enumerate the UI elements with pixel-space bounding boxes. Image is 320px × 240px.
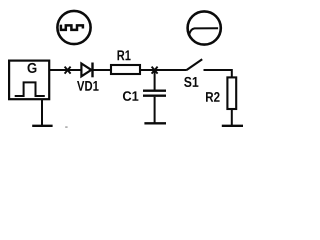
wire: G output to diode	[50, 69, 82, 71]
label R2	[206, 92, 220, 102]
wire: switch fixed contact to R2, with corner	[204, 70, 232, 78]
probe point x (input)	[65, 67, 71, 74]
resistor R2	[227, 77, 236, 109]
diode VD1	[81, 64, 91, 77]
wire stub below G box	[41, 99, 43, 126]
indicator circle (input waveform)	[57, 11, 90, 44]
label R1	[118, 50, 131, 60]
capacitor C1 plates	[143, 90, 166, 92]
wire: node to C1	[154, 70, 156, 90]
wire: R1 to switch S1	[140, 69, 187, 71]
terminal bar below C1	[144, 122, 166, 124]
switch S1 lever	[187, 59, 203, 70]
single pulse symbol inside G box	[15, 82, 45, 96]
label S1	[184, 77, 198, 87]
faint speck on scan	[65, 126, 67, 128]
label C1	[123, 91, 138, 101]
label G	[28, 63, 37, 73]
wire: diode to R1	[94, 69, 112, 71]
terminal bar below G	[32, 125, 52, 127]
resistor R1	[111, 65, 140, 74]
generator G box	[9, 61, 49, 100]
label VD1	[77, 81, 99, 91]
terminal bar below R2	[222, 125, 243, 127]
meander (square-wave) symbol	[61, 25, 83, 30]
smoothed (DC) waveform symbol	[189, 28, 218, 35]
wire below R2	[231, 109, 233, 126]
indicator circle (output waveform)	[188, 11, 221, 44]
junction / probe point x (output node)	[152, 67, 158, 74]
wire below C1	[154, 97, 156, 124]
